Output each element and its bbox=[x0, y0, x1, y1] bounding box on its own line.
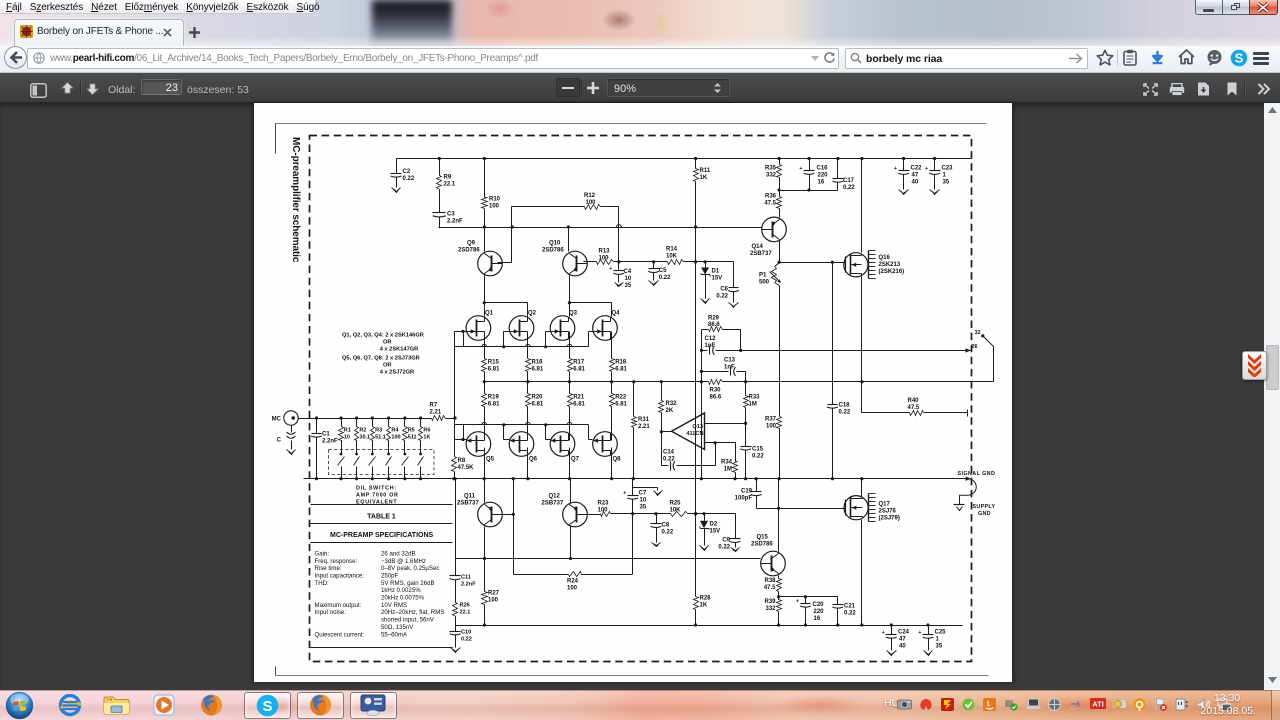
svg-text:R4: R4 bbox=[391, 428, 399, 434]
svg-text:R14: R14 bbox=[666, 247, 678, 253]
resistor R5 bbox=[403, 419, 417, 455]
menu bar pill bbox=[0, 0, 316, 14]
resistor R32 bbox=[659, 382, 678, 432]
capacitor C24 (polarized) bbox=[882, 626, 910, 650]
zener diode D2 bbox=[700, 514, 721, 545]
downloads bbox=[1150, 50, 1165, 65]
wire: Q8 gate step bbox=[589, 425, 593, 440]
resistor R35 bbox=[765, 159, 782, 192]
wire: JFET source to ground rail bbox=[527, 448, 529, 479]
page frame bottom line bbox=[276, 675, 989, 677]
svg-text:20Hz–20kHz, flat, RMS: 20Hz–20kHz, flat, RMS bbox=[381, 609, 444, 616]
resistor R3 bbox=[371, 419, 386, 455]
clipboard bbox=[1123, 49, 1137, 66]
label SIGNAL GND bbox=[958, 471, 996, 477]
active buttons bbox=[244, 692, 291, 719]
wire: Q12 emitter down bbox=[569, 527, 572, 561]
svg-text:R26: R26 bbox=[460, 603, 470, 609]
svg-text:Q7: Q7 bbox=[571, 457, 580, 463]
svg-text:30.1: 30.1 bbox=[359, 435, 370, 441]
svg-text:shorted input, 56nV: shorted input, 56nV bbox=[381, 617, 435, 624]
svg-text:C23: C23 bbox=[942, 166, 954, 172]
svg-text:10: 10 bbox=[625, 276, 632, 282]
wire: JFET source to ground rail bbox=[611, 448, 613, 479]
ground below D2 bbox=[700, 545, 709, 551]
capacitor C21 bbox=[832, 597, 856, 626]
svg-text:0.22: 0.22 bbox=[716, 294, 728, 300]
svg-text:Q1: Q1 bbox=[485, 311, 494, 317]
svg-text:Q8: Q8 bbox=[613, 457, 622, 463]
svg-text:20kHz 0.0075%: 20kHz 0.0075% bbox=[381, 595, 425, 602]
svg-text:R37: R37 bbox=[765, 417, 777, 423]
resistor R37 bbox=[765, 417, 782, 479]
svg-text:411CN: 411CN bbox=[686, 431, 703, 437]
wire: Q17 source to negative rail bbox=[861, 520, 863, 626]
svg-text:(2SJ79): (2SJ79) bbox=[879, 516, 900, 522]
svg-text:47: 47 bbox=[899, 637, 906, 643]
svg-text:Freq. response:: Freq. response: bbox=[315, 558, 358, 565]
resistor R38 bbox=[764, 576, 782, 599]
capacitor C2 bbox=[391, 159, 415, 187]
ground below C6 bbox=[729, 302, 739, 308]
svg-text:2SD786: 2SD786 bbox=[458, 248, 480, 254]
label Q16 bbox=[879, 255, 905, 275]
svg-text:1M: 1M bbox=[724, 467, 732, 473]
svg-text:1nF: 1nF bbox=[724, 365, 735, 371]
svg-text:Q13: Q13 bbox=[692, 424, 703, 430]
svg-text:50Ω, 135nV: 50Ω, 135nV bbox=[381, 624, 414, 631]
wire: negative feed vertical (R11 line down) bbox=[694, 228, 697, 597]
label Q17 bbox=[879, 502, 900, 522]
label DIL switch bbox=[356, 486, 399, 506]
wire: Q16 drain to top rail bbox=[861, 159, 863, 253]
svg-text:R20: R20 bbox=[532, 395, 544, 401]
svg-text:0–8V peak, 0.25µSec: 0–8V peak, 0.25µSec bbox=[381, 565, 439, 572]
wire: rail to Q15 collector bbox=[778, 479, 780, 552]
search box bbox=[845, 48, 1088, 69]
resistor R33 bbox=[744, 382, 761, 424]
DIL switch S3 bbox=[369, 453, 376, 479]
wire: Q2 gate step bbox=[504, 332, 510, 347]
svg-text:2SB737: 2SB737 bbox=[750, 251, 772, 257]
svg-text:1M: 1M bbox=[749, 402, 757, 408]
svg-text:THD:: THD: bbox=[315, 580, 330, 587]
svg-text:Q6: Q6 bbox=[529, 457, 538, 463]
svg-text:C15: C15 bbox=[752, 447, 764, 453]
capacitor C9 bbox=[718, 514, 740, 551]
JFET Q1 bbox=[466, 316, 491, 341]
resistor R36 bbox=[764, 191, 781, 218]
label Q11 bbox=[457, 494, 479, 507]
svg-text:6.81: 6.81 bbox=[488, 402, 500, 408]
wire: Q6 gate step bbox=[504, 425, 510, 440]
wire: top positive rail bbox=[397, 157, 972, 160]
resistor R13 bbox=[584, 249, 619, 265]
svg-text:R40: R40 bbox=[908, 398, 920, 404]
resistor R10 bbox=[482, 159, 501, 228]
capacitor C18 bbox=[827, 263, 851, 479]
capacitor C10 bbox=[450, 626, 472, 647]
ground below C24 bbox=[887, 650, 897, 656]
wire: C16/C17 bottom row bbox=[780, 188, 838, 191]
table rule 3 bbox=[311, 542, 453, 544]
wire: JFET source to ground rail bbox=[569, 448, 571, 479]
dashed schematic border bbox=[310, 136, 972, 662]
svg-text:35: 35 bbox=[625, 283, 632, 289]
resistor R28 bbox=[694, 596, 712, 626]
svg-text:2.2nF: 2.2nF bbox=[447, 219, 463, 225]
op-amp Q13 411CN bbox=[672, 413, 705, 450]
wire: Q16 gate row bbox=[780, 261, 846, 264]
ground branch beside C7 bbox=[633, 488, 663, 496]
svg-text:+: + bbox=[609, 266, 612, 272]
capacitor C25 (polarized) bbox=[918, 626, 946, 650]
page up bbox=[60, 81, 75, 96]
svg-text:R23: R23 bbox=[598, 501, 610, 507]
capacitor C17 bbox=[833, 159, 856, 192]
svg-text:Q2: Q2 bbox=[528, 311, 537, 317]
svg-text:2.21: 2.21 bbox=[638, 424, 650, 430]
svg-text:1K: 1K bbox=[423, 435, 430, 441]
wire: row1 gate bus bbox=[455, 330, 589, 349]
note: JFET types bbox=[342, 333, 424, 376]
svg-text:ATI: ATI bbox=[1092, 700, 1104, 709]
resistor R27 bbox=[482, 559, 500, 626]
svg-text:0.22: 0.22 bbox=[403, 176, 415, 182]
wire: Q10 emitter to rail2 bbox=[568, 228, 570, 252]
resistor R22 bbox=[610, 382, 628, 441]
svg-text:R28: R28 bbox=[700, 596, 712, 602]
svg-text:Q14: Q14 bbox=[752, 244, 764, 250]
svg-text:2.21: 2.21 bbox=[430, 410, 442, 416]
svg-text:+: + bbox=[799, 166, 802, 172]
svg-text:R33: R33 bbox=[749, 395, 761, 401]
svg-text:R34: R34 bbox=[721, 460, 733, 466]
back button bbox=[4, 46, 27, 69]
signal ground hook bbox=[959, 477, 976, 496]
capacitor C12 bbox=[705, 336, 717, 355]
resistor R6 bbox=[419, 419, 431, 455]
svg-text:R15: R15 bbox=[488, 360, 500, 366]
capacitor C19 bbox=[735, 479, 762, 509]
ground below C10 bbox=[451, 647, 461, 653]
svg-text:R12: R12 bbox=[584, 193, 596, 199]
svg-text:2SK213: 2SK213 bbox=[879, 262, 901, 268]
svg-text:R7: R7 bbox=[430, 403, 438, 409]
svg-text:500: 500 bbox=[759, 280, 770, 286]
label Q9 bbox=[458, 241, 480, 254]
DIL switch S5 bbox=[402, 453, 409, 479]
wire: rail2 (Q9/Q10 base rail) bbox=[439, 225, 762, 229]
svg-text:32: 32 bbox=[975, 330, 981, 336]
resistor R23 bbox=[582, 501, 633, 517]
power MOSFET Q16 bbox=[844, 253, 868, 277]
svg-text:C20: C20 bbox=[813, 602, 825, 608]
wire: Q4 gate step bbox=[589, 332, 593, 347]
resistor R17 bbox=[568, 332, 586, 382]
svg-text:Q10: Q10 bbox=[549, 241, 561, 247]
svg-text:+: + bbox=[925, 166, 928, 172]
wire: feedback vertical bbox=[700, 351, 703, 479]
svg-text:R1: R1 bbox=[344, 428, 351, 434]
svg-text:Q9: Q9 bbox=[467, 241, 476, 247]
svg-text:R22: R22 bbox=[615, 395, 627, 401]
svg-text:6.81: 6.81 bbox=[532, 402, 544, 408]
svg-text:100: 100 bbox=[599, 256, 610, 262]
label Q13 bbox=[686, 424, 703, 437]
svg-text:47.5: 47.5 bbox=[908, 405, 920, 411]
svg-text:22.1: 22.1 bbox=[444, 182, 456, 188]
wire: R25 row bbox=[633, 512, 736, 515]
connector pins 32/26 bbox=[972, 330, 994, 382]
svg-text:Quiescent current:: Quiescent current: bbox=[315, 631, 365, 638]
capacitor C6 bbox=[716, 262, 739, 302]
svg-text:16: 16 bbox=[818, 180, 825, 186]
label SUPPLY GND bbox=[973, 504, 996, 517]
svg-text:1kHz 0.0025%: 1kHz 0.0025% bbox=[381, 587, 421, 594]
zoom controls bbox=[556, 78, 580, 97]
svg-text:0.22: 0.22 bbox=[461, 637, 472, 643]
label Q14 bbox=[750, 244, 772, 257]
svg-text:R24: R24 bbox=[567, 579, 579, 585]
resistor R11 bbox=[694, 159, 711, 228]
zener diode D1 bbox=[701, 262, 723, 298]
svg-text:+: + bbox=[796, 599, 799, 605]
svg-text:4 x 2SK147GR: 4 x 2SK147GR bbox=[380, 347, 419, 353]
svg-text:47.5K: 47.5K bbox=[458, 465, 475, 471]
svg-text:C22: C22 bbox=[911, 166, 923, 172]
wire: Q11 collector to rail bbox=[484, 479, 486, 503]
svg-text:Q5: Q5 bbox=[486, 457, 495, 463]
svg-text:22.1: 22.1 bbox=[460, 610, 471, 616]
svg-text:6.81: 6.81 bbox=[615, 402, 627, 408]
wire: Q17 drain to signal ground rail bbox=[861, 479, 863, 497]
DIL switch S2 bbox=[354, 453, 360, 479]
wire: JFET source to ground rail bbox=[484, 448, 486, 479]
wire: Q9 collector to Q1/Q2 drains bbox=[483, 276, 486, 305]
capacitor C11 bbox=[450, 559, 477, 603]
svg-text:2.2nF: 2.2nF bbox=[322, 439, 338, 445]
svg-text:51.1: 51.1 bbox=[375, 435, 386, 441]
transistor Q9 bbox=[478, 251, 503, 276]
resistor R21 bbox=[568, 382, 586, 441]
svg-text:R30: R30 bbox=[710, 388, 722, 394]
ground below D1 bbox=[701, 298, 710, 304]
capacitor C5 bbox=[648, 262, 671, 282]
svg-text:2K: 2K bbox=[666, 408, 674, 414]
resistor R15 bbox=[482, 332, 501, 382]
svg-text:5V RMS, gain 26dB: 5V RMS, gain 26dB bbox=[381, 580, 435, 587]
svg-text:35: 35 bbox=[640, 505, 647, 511]
resistor R26 bbox=[453, 603, 471, 626]
svg-text:Q5, Q6, Q7, Q8: 2 x 2SJ73GR: Q5, Q6, Q7, Q8: 2 x 2SJ73GR bbox=[342, 356, 420, 362]
svg-text:100: 100 bbox=[489, 204, 500, 210]
svg-text:C3: C3 bbox=[447, 212, 455, 218]
svg-text:47.5: 47.5 bbox=[764, 585, 776, 591]
svg-text:40: 40 bbox=[899, 644, 906, 650]
svg-text:100: 100 bbox=[766, 424, 777, 430]
svg-text:R18: R18 bbox=[615, 360, 627, 366]
wire: gate feed vertical bbox=[453, 332, 456, 440]
svg-text:0.22: 0.22 bbox=[662, 530, 674, 536]
svg-text:C11: C11 bbox=[461, 575, 471, 581]
heatsink of Q17 bbox=[869, 494, 876, 522]
svg-text:R9: R9 bbox=[444, 175, 452, 181]
wire: bottom negative rail bbox=[456, 623, 963, 626]
svg-text:0.22: 0.22 bbox=[659, 275, 671, 281]
wire: Q17 gate row bbox=[757, 507, 846, 510]
window buttons bbox=[1195, 0, 1278, 15]
trimmer P1 bbox=[759, 263, 781, 286]
svg-text:35: 35 bbox=[943, 180, 950, 186]
svg-text:Q15: Q15 bbox=[757, 535, 769, 541]
svg-text:MC-preamplifier schematic: MC-preamplifier schematic bbox=[290, 137, 301, 263]
capacitor C14 bbox=[662, 432, 716, 471]
svg-text:1K: 1K bbox=[700, 603, 708, 609]
svg-text:SUPPLY: SUPPLY bbox=[973, 504, 996, 510]
svg-text:10K: 10K bbox=[666, 254, 678, 260]
wire: P1 to R37 bbox=[779, 286, 781, 417]
svg-text:R5: R5 bbox=[408, 428, 415, 434]
svg-text:R19: R19 bbox=[488, 395, 500, 401]
wire: Q11 emitter down bbox=[483, 527, 486, 561]
svg-text:S: S bbox=[1235, 51, 1244, 66]
svg-text:R21: R21 bbox=[573, 395, 585, 401]
transistor Q10 bbox=[563, 251, 588, 276]
svg-text:R35: R35 bbox=[765, 166, 777, 172]
svg-text:0.22: 0.22 bbox=[839, 410, 851, 416]
svg-text:AMP 7000 OR: AMP 7000 OR bbox=[356, 493, 399, 499]
resistor R40 bbox=[862, 382, 968, 417]
svg-text:C2: C2 bbox=[403, 169, 411, 175]
ground below C22 bbox=[899, 189, 909, 195]
svg-text:R38: R38 bbox=[764, 578, 776, 584]
svg-text:0.22: 0.22 bbox=[752, 454, 764, 460]
capacitor C15 bbox=[740, 424, 764, 479]
power MOSFET Q17 bbox=[844, 496, 868, 520]
svg-text:R36: R36 bbox=[765, 194, 777, 200]
label Q6 bbox=[529, 457, 538, 463]
svg-text:OR: OR bbox=[383, 363, 392, 369]
svg-text:1: 1 bbox=[936, 637, 940, 643]
ground below C9 bbox=[731, 546, 740, 552]
label Q8 bbox=[613, 457, 622, 463]
wire: C20/C21 row bbox=[779, 595, 838, 598]
page down bbox=[85, 81, 100, 96]
svg-text:C18: C18 bbox=[839, 403, 851, 409]
svg-text:R17: R17 bbox=[573, 360, 585, 366]
svg-text:D2: D2 bbox=[710, 522, 718, 528]
DownThemAll drop target icon bbox=[1242, 351, 1267, 380]
svg-text:1K: 1K bbox=[700, 175, 708, 181]
svg-text:10: 10 bbox=[344, 435, 350, 441]
svg-text:0.22: 0.22 bbox=[843, 185, 855, 191]
ground below C5 bbox=[649, 280, 659, 286]
svg-text:86.6: 86.6 bbox=[708, 322, 720, 328]
svg-text:R6: R6 bbox=[423, 428, 430, 434]
svg-text:2.2nF: 2.2nF bbox=[461, 582, 476, 588]
svg-text:R8: R8 bbox=[458, 458, 466, 464]
resistor R30 bbox=[709, 380, 723, 401]
svg-text:R11: R11 bbox=[700, 168, 711, 174]
wire: op-amp + input bbox=[705, 441, 736, 444]
svg-text:MC-PREAMP SPECIFICATIONS: MC-PREAMP SPECIFICATIONS bbox=[330, 532, 434, 539]
svg-text:Q3: Q3 bbox=[569, 311, 578, 317]
svg-text:332: 332 bbox=[765, 606, 776, 612]
svg-text:C1: C1 bbox=[322, 432, 330, 438]
svg-text:6.81: 6.81 bbox=[488, 367, 500, 373]
label Q12 bbox=[542, 494, 564, 507]
table rule 2 bbox=[311, 523, 453, 525]
svg-text:26: 26 bbox=[972, 344, 978, 350]
svg-text:6.81: 6.81 bbox=[573, 402, 585, 408]
svg-text:R29: R29 bbox=[708, 316, 720, 322]
wire: R12 right leg bbox=[618, 207, 620, 262]
wire: Q3 gate step bbox=[546, 332, 551, 347]
capacitor C3 bbox=[433, 190, 464, 228]
wire: Q15 base line bbox=[456, 558, 761, 560]
label MC-PREAMP SPECIFICATIONS bbox=[330, 532, 434, 539]
resistor R9 bbox=[437, 159, 456, 190]
ground below C23 bbox=[930, 189, 940, 195]
svg-text:10: 10 bbox=[640, 498, 647, 504]
resistor R12 bbox=[512, 193, 619, 210]
wire: C11 branch from ground rail bbox=[453, 477, 456, 558]
svg-text:2SD786: 2SD786 bbox=[751, 542, 773, 548]
svg-text:47.5: 47.5 bbox=[764, 201, 776, 207]
star bbox=[1096, 49, 1114, 66]
svg-text:250pF: 250pF bbox=[381, 572, 399, 579]
svg-text:220: 220 bbox=[818, 173, 829, 179]
svg-text:D1: D1 bbox=[712, 269, 720, 275]
resistor R39 bbox=[764, 597, 781, 626]
svg-text:C12: C12 bbox=[705, 336, 717, 342]
the PDF page bbox=[254, 103, 1012, 682]
svg-text:C14: C14 bbox=[663, 450, 675, 456]
capacitor C22 (polarized) bbox=[894, 159, 922, 189]
talkilla bubble bbox=[1206, 49, 1223, 66]
svg-text:10V RMS: 10V RMS bbox=[381, 602, 407, 609]
svg-text:C7: C7 bbox=[639, 491, 647, 497]
svg-text:2SB737: 2SB737 bbox=[457, 501, 479, 507]
svg-text:+: + bbox=[918, 630, 921, 636]
svg-text:DIL SWITCH:: DIL SWITCH: bbox=[356, 486, 397, 492]
svg-text:0.22: 0.22 bbox=[718, 545, 730, 551]
resistor R2 bbox=[355, 419, 371, 455]
svg-text:C9: C9 bbox=[722, 538, 730, 544]
table rule 4 bbox=[311, 647, 453, 649]
svg-text:2SB737: 2SB737 bbox=[542, 501, 564, 507]
svg-text:100: 100 bbox=[391, 435, 400, 441]
svg-text:511: 511 bbox=[408, 435, 417, 441]
transistor Q14 bbox=[762, 217, 787, 242]
skype bbox=[1230, 49, 1248, 67]
svg-text:(2SK216): (2SK216) bbox=[879, 269, 905, 275]
svg-text:C16: C16 bbox=[817, 166, 829, 172]
resistor R7 bbox=[430, 403, 456, 421]
svg-text:Rise time:: Rise time: bbox=[315, 565, 342, 572]
svg-text:6.81: 6.81 bbox=[573, 367, 585, 373]
svg-text:C4: C4 bbox=[624, 269, 632, 275]
svg-text:R32: R32 bbox=[666, 401, 678, 407]
svg-text:R27: R27 bbox=[488, 591, 500, 597]
resistor R16 bbox=[526, 332, 544, 382]
svg-text:16: 16 bbox=[814, 616, 821, 622]
wire: Q11/Q12 base net bbox=[498, 477, 515, 574]
svg-text:C5: C5 bbox=[659, 268, 667, 274]
start orb bbox=[5, 691, 34, 720]
resistor R25 bbox=[670, 501, 688, 517]
